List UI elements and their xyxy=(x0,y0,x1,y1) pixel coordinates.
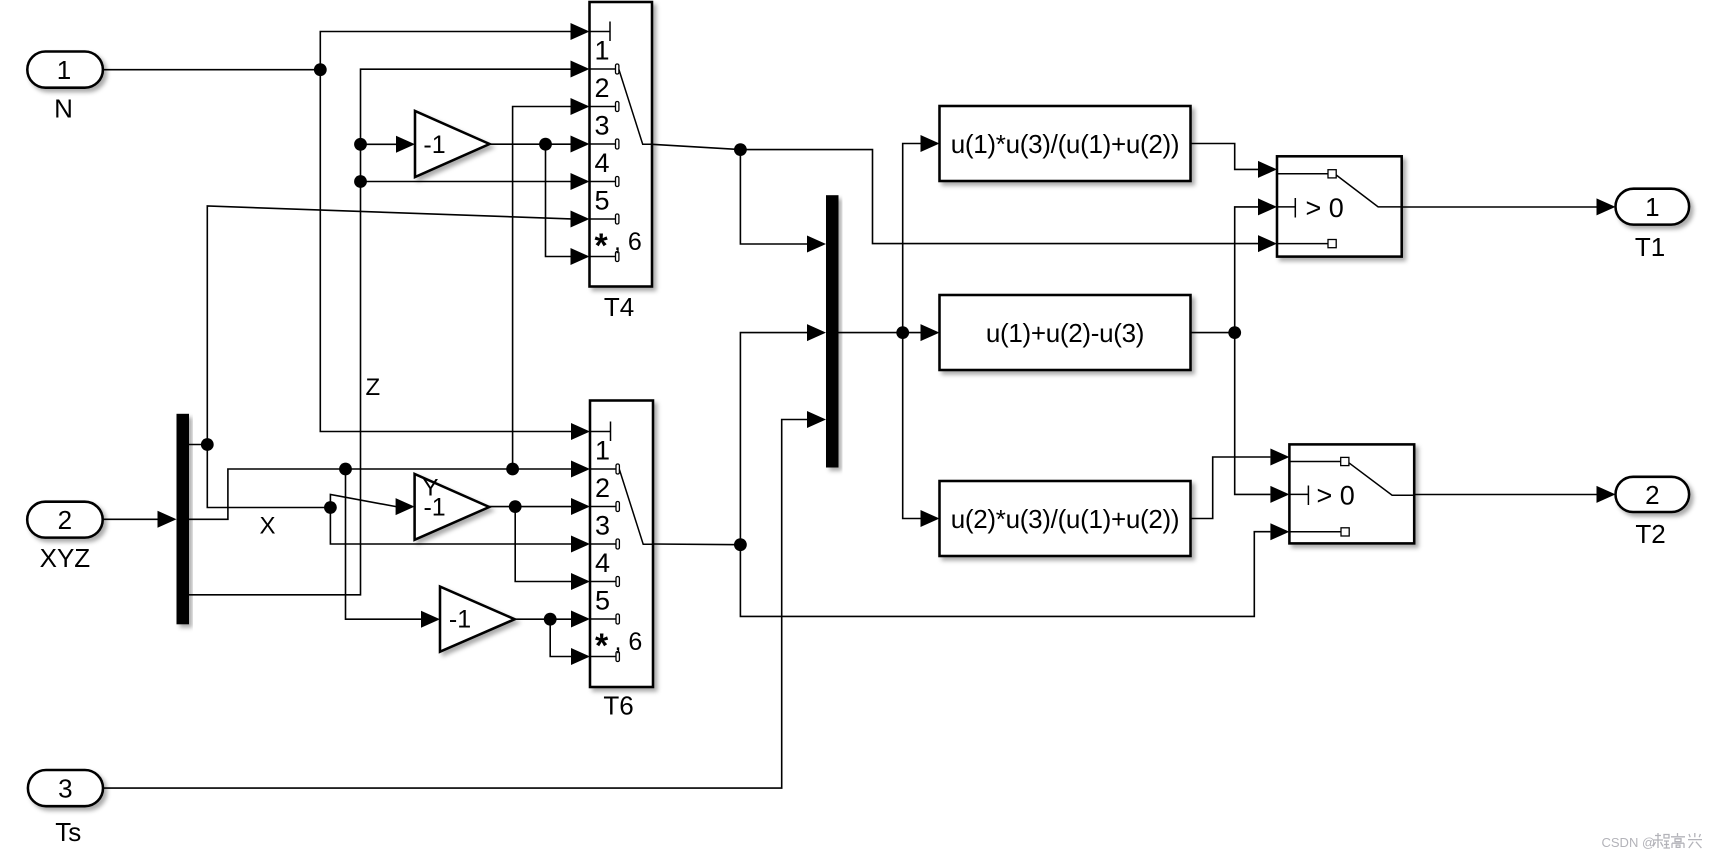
svg-text:u(1)*u(3)/(u(1)+u(2)): u(1)*u(3)/(u(1)+u(2)) xyxy=(951,129,1180,159)
inport 2 XYZ xyxy=(27,502,103,573)
svg-text:T6: T6 xyxy=(603,691,633,721)
fcn block F2 xyxy=(940,295,1191,370)
node mux out junction xyxy=(896,326,909,339)
node Z junction 2 xyxy=(354,175,367,188)
outport 2 T2 xyxy=(1616,477,1690,549)
wire G2 to T6 d2 xyxy=(515,498,590,515)
wire T4 out to switch S1 in3 xyxy=(740,150,1277,253)
svg-text:, 6: , 6 xyxy=(615,628,643,656)
wire G3 to T6 d5 xyxy=(550,611,590,628)
wire Z to T4 d4 xyxy=(361,173,590,190)
svg-text:, 6: , 6 xyxy=(614,228,642,256)
node G1 junction xyxy=(539,138,552,151)
wire F2 to switch S1 in2 xyxy=(1235,198,1277,332)
svg-text:T1: T1 xyxy=(1635,232,1665,262)
wire T6 out to mux in2 xyxy=(740,324,826,545)
svg-text:2: 2 xyxy=(58,505,72,535)
switch S2 xyxy=(1289,444,1414,543)
svg-text:5: 5 xyxy=(595,586,610,616)
wire N to junction xyxy=(103,69,320,71)
svg-text:5: 5 xyxy=(595,186,610,216)
gain G1 -1 xyxy=(415,111,490,177)
svg-text:-1: -1 xyxy=(423,131,445,159)
node F2 junction xyxy=(1228,326,1241,339)
wire T6 output xyxy=(653,543,740,546)
wire N junction to T4 control xyxy=(320,23,589,70)
svg-text:T4: T4 xyxy=(604,292,634,322)
multiport switch T6 xyxy=(590,401,653,721)
outport 1 T1 xyxy=(1616,189,1690,262)
svg-text:> 0: > 0 xyxy=(1306,193,1344,223)
wire F2 out to junction xyxy=(1191,332,1235,334)
wire G2 out to dot xyxy=(489,506,515,508)
node X junction 2 xyxy=(506,463,519,476)
node T6 out junction xyxy=(734,538,747,551)
svg-text:1: 1 xyxy=(57,55,71,85)
demux bar xyxy=(177,414,190,625)
svg-text:T2: T2 xyxy=(1635,519,1665,549)
wire demux out2 X to T6 d1 xyxy=(189,461,590,520)
svg-text:*: * xyxy=(595,227,609,265)
wire Y down to gain input row xyxy=(207,445,330,508)
node X junction 1 xyxy=(339,463,352,476)
gain G3 -1 xyxy=(440,587,515,652)
wire G1 out to dot xyxy=(490,143,546,145)
wire F2 to switch S2 in2 xyxy=(1235,333,1290,503)
wire G1 to T4 d6 xyxy=(546,144,590,265)
wire S2 out to outport T2 xyxy=(1414,486,1615,503)
node G3 junction xyxy=(544,613,557,626)
wire F3 out to switch S2 in1 xyxy=(1191,449,1290,519)
svg-text:Y: Y xyxy=(423,474,439,501)
svg-text:4: 4 xyxy=(595,548,610,578)
svg-text:N: N xyxy=(54,94,73,124)
svg-text:Ts: Ts xyxy=(55,817,81,847)
fcn block F1 xyxy=(940,106,1191,181)
watermark xyxy=(1602,833,1703,850)
wire demux out1 Y stub xyxy=(189,444,207,446)
multiport switch T4 xyxy=(590,2,653,322)
wire N junction to T6 control xyxy=(320,70,590,440)
wire G1 to T4 d3 xyxy=(546,136,590,153)
node G2 junction xyxy=(509,500,522,513)
node Z junction 1 xyxy=(354,138,367,151)
node T4 out junction xyxy=(734,143,747,156)
wire T4 output xyxy=(652,144,740,149)
wire S1 out to outport T1 xyxy=(1402,198,1616,215)
svg-text:X: X xyxy=(260,512,276,539)
node Y2 junction xyxy=(324,501,337,514)
svg-text:XYZ: XYZ xyxy=(40,543,91,573)
wire mux out to fcn1 xyxy=(903,135,940,333)
wire Y2 down to T6 d3 xyxy=(330,508,590,553)
svg-text:2: 2 xyxy=(1645,480,1659,510)
svg-text:2: 2 xyxy=(595,73,610,103)
svg-text:Z: Z xyxy=(366,374,381,401)
wire Z to gain G1 input xyxy=(361,136,416,153)
wire XYZ to demux xyxy=(103,511,177,528)
wire mux out to fcn3 xyxy=(903,333,940,527)
svg-text:1: 1 xyxy=(595,36,610,66)
svg-text:4: 4 xyxy=(595,148,610,178)
node Y junction xyxy=(201,438,214,451)
svg-text:-1: -1 xyxy=(449,606,471,634)
wire mux output xyxy=(839,332,903,334)
wire Ts to mux in3 xyxy=(103,411,826,788)
svg-text:3: 3 xyxy=(595,111,610,141)
inport 3 Ts xyxy=(28,770,103,847)
wire T6 out to switch S2 in3 xyxy=(740,523,1289,616)
mux bar xyxy=(826,195,839,467)
svg-text:u(1)+u(2)-u(3): u(1)+u(2)-u(3) xyxy=(986,318,1144,348)
wire G3 to T6 d6 xyxy=(550,619,590,665)
wire G3 out to dot xyxy=(515,618,551,620)
svg-text:2: 2 xyxy=(595,473,610,503)
svg-text:3: 3 xyxy=(58,774,72,804)
svg-text:CSDN @: CSDN @ xyxy=(1602,835,1656,850)
gain G2 -1 xyxy=(415,474,490,540)
fcn block F3 xyxy=(940,481,1191,556)
wire Y wiggle to gain G2 input xyxy=(330,495,414,516)
switch S1 xyxy=(1277,156,1402,256)
svg-text:3: 3 xyxy=(595,511,610,541)
svg-text:u(2)*u(3)/(u(1)+u(2)): u(2)*u(3)/(u(1)+u(2)) xyxy=(951,504,1180,534)
svg-text:1: 1 xyxy=(595,436,610,466)
wire mux out to fcn2 xyxy=(903,324,940,341)
node N junction xyxy=(314,63,327,76)
svg-text:> 0: > 0 xyxy=(1317,481,1355,511)
wire T4 out to mux in1 xyxy=(740,150,826,253)
svg-text:*: * xyxy=(595,627,609,665)
wire Y up diagonal to T4 d5 xyxy=(207,206,589,445)
wire G2 to T6 d4 xyxy=(515,507,590,590)
wire demux out3 Z up to T4 d1 xyxy=(189,61,590,595)
wire X up to T4 d2 xyxy=(513,98,590,469)
wire F1 out to switch S1 in1 xyxy=(1191,144,1278,178)
svg-text:1: 1 xyxy=(1645,192,1659,222)
inport 1 N xyxy=(27,52,103,124)
wire X to gain G3 input xyxy=(346,469,441,628)
